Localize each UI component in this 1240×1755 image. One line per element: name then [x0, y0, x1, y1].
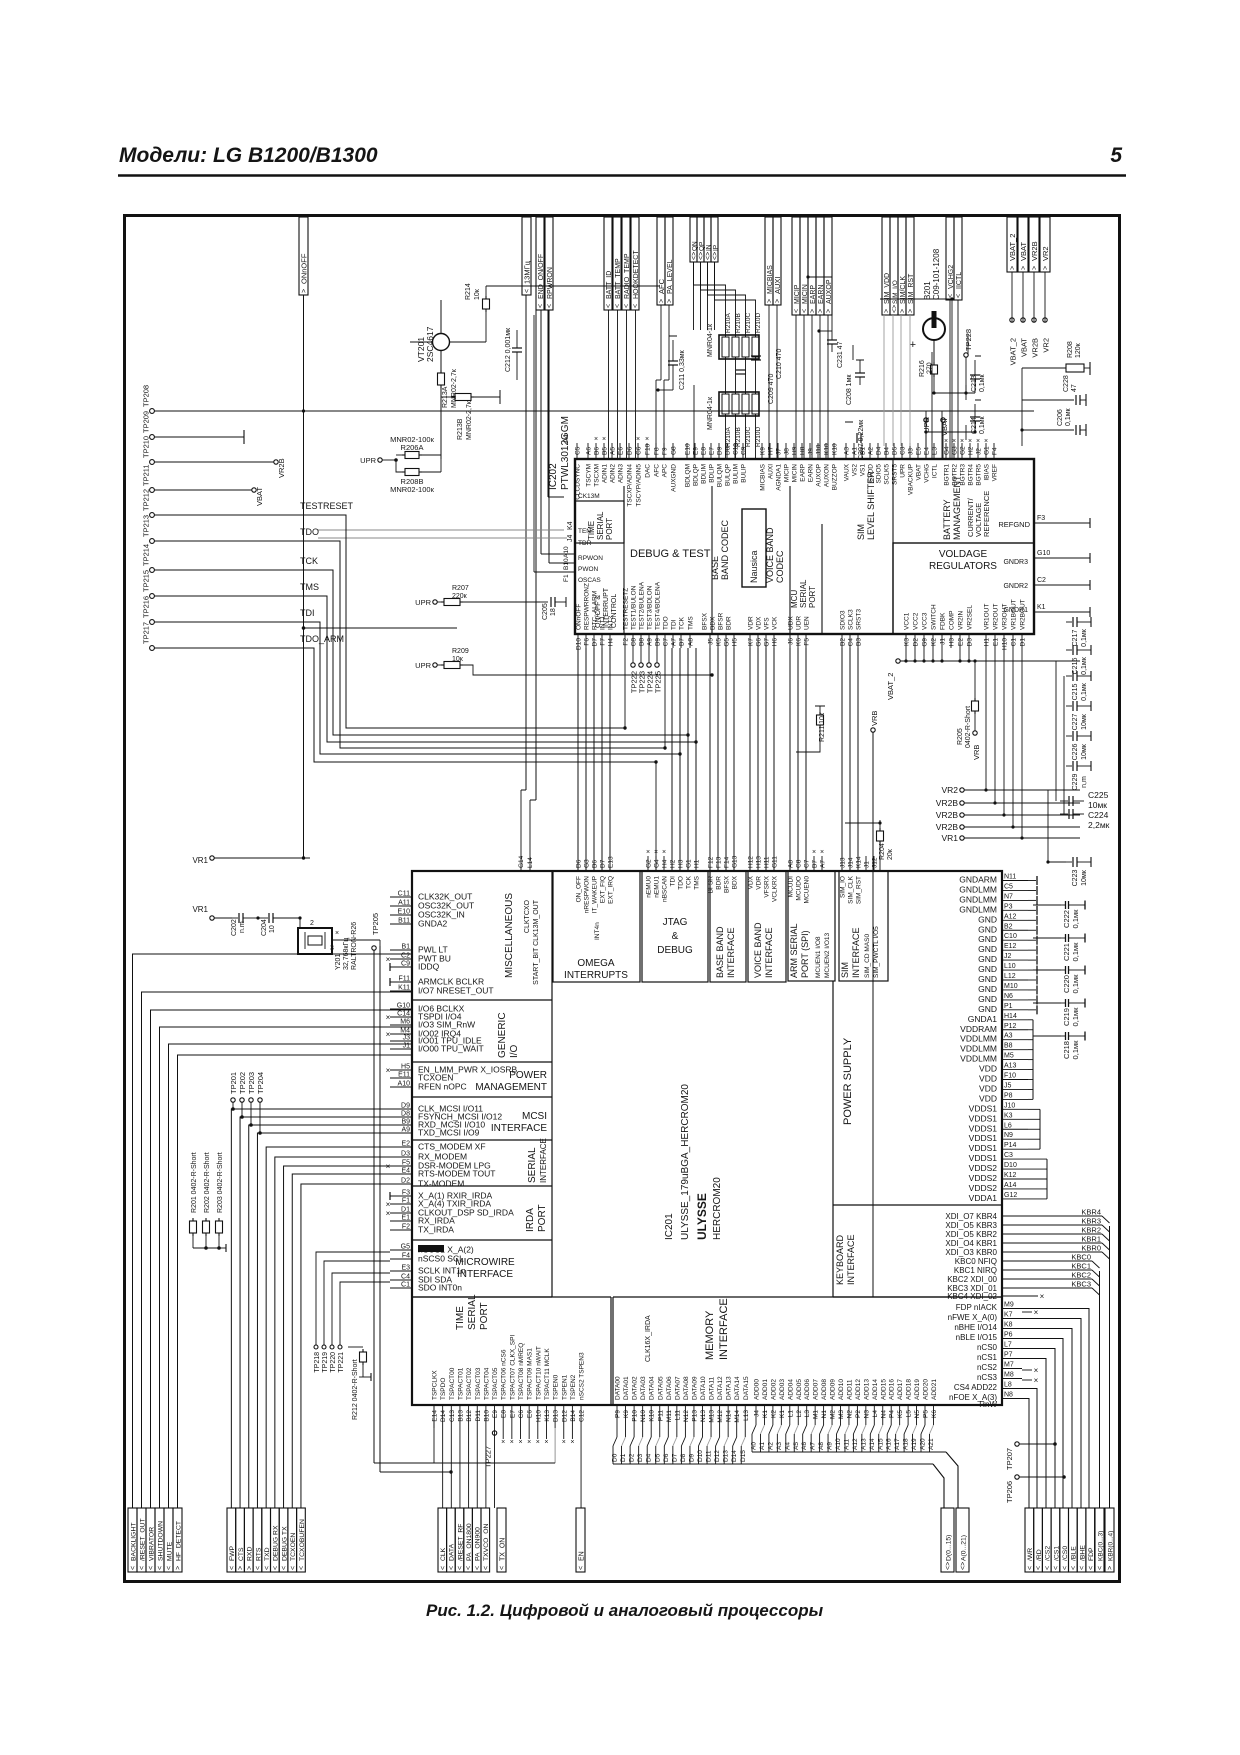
- svg-text:BFSX: BFSX: [702, 612, 709, 630]
- svg-text:START_BIT CLK13M_OUT: START_BIT CLK13M_OUT: [533, 899, 540, 985]
- svg-text:C4: C4: [401, 1274, 410, 1281]
- svg-text:K7: K7: [748, 638, 755, 646]
- svg-text:C211 0,33мк: C211 0,33мк: [679, 349, 686, 390]
- svg-text:J2: J2: [1004, 953, 1012, 960]
- svg-text:IDDQ: IDDQ: [418, 962, 440, 972]
- svg-text:ADD04: ADD04: [787, 1379, 794, 1400]
- svg-text:BGTR2: BGTR2: [952, 464, 959, 486]
- svg-text:10мк: 10мк: [1081, 869, 1088, 886]
- svg-text:ADD11: ADD11: [846, 1379, 853, 1400]
- svg-text:C6: C6: [636, 446, 643, 455]
- svg-text:VRB: VRB: [972, 745, 981, 760]
- svg-text:0,1мк: 0,1мк: [979, 373, 986, 392]
- svg-text:nEMU1: nEMU1: [654, 876, 661, 898]
- svg-text:R210D: R210D: [755, 426, 762, 447]
- svg-text:VR1: VR1: [192, 905, 208, 914]
- svg-text:RADIO_TEMP: RADIO_TEMP: [624, 253, 631, 299]
- svg-text:VBAT: VBAT: [916, 464, 923, 481]
- svg-text:H9: H9: [792, 446, 799, 455]
- svg-text:DATA06: DATA06: [666, 1376, 673, 1400]
- svg-text:×: ×: [645, 436, 649, 443]
- svg-text:C5: C5: [575, 446, 582, 455]
- svg-text:K3: K3: [1004, 1112, 1013, 1119]
- svg-text:R207: R207: [452, 585, 469, 592]
- svg-text:B13: B13: [457, 1410, 464, 1422]
- svg-text:R210C: R210C: [745, 312, 752, 333]
- svg-text:VS1: VS1: [860, 464, 867, 477]
- svg-text:A14: A14: [1004, 1182, 1017, 1189]
- svg-text:TSPACT09 MAS1: TSPACT09 MAS1: [527, 1348, 534, 1400]
- svg-text:VDD: VDD: [979, 1083, 997, 1093]
- svg-text:J1: J1: [940, 638, 947, 645]
- svg-text:D1: D1: [620, 1453, 627, 1462]
- svg-text:GNDR2: GNDR2: [1003, 583, 1028, 590]
- svg-text:×: ×: [335, 930, 339, 937]
- svg-text:DATA00: DATA00: [615, 1376, 622, 1400]
- svg-text:TCXOEN: TCXOEN: [290, 1533, 297, 1561]
- svg-text:MICROWIRE: MICROWIRE: [455, 1257, 515, 1268]
- svg-text:ON_OFF: ON_OFF: [576, 876, 583, 902]
- svg-text:E10: E10: [398, 909, 411, 916]
- svg-text:×: ×: [960, 438, 964, 445]
- svg-text:BATT_TEMP: BATT_TEMP: [615, 258, 622, 299]
- svg-text:H1: H1: [984, 638, 991, 647]
- svg-text:R205: R205: [957, 728, 964, 745]
- svg-text:F9: F9: [662, 447, 669, 455]
- svg-text:F14: F14: [724, 856, 731, 868]
- svg-text:RPWON: RPWON: [578, 555, 603, 562]
- svg-text:<>: <>: [945, 1562, 952, 1570]
- svg-text:BDLQP: BDLQP: [693, 464, 700, 486]
- svg-text:D10: D10: [697, 1450, 704, 1462]
- svg-text:KBC1: KBC1: [1071, 1262, 1091, 1271]
- svg-text:TDI: TDI: [300, 608, 315, 618]
- svg-text:H8: H8: [800, 446, 807, 455]
- svg-text:SHUTDOWN: SHUTDOWN: [157, 1521, 164, 1561]
- svg-text:G5: G5: [724, 638, 731, 647]
- svg-text:<: <: [524, 289, 531, 293]
- svg-text:R212 0402-R-Short: R212 0402-R-Short: [352, 1359, 359, 1420]
- svg-text:L6: L6: [1004, 1122, 1012, 1129]
- svg-text:REGULATORS: REGULATORS: [929, 561, 997, 572]
- svg-text:A20: A20: [920, 1438, 927, 1450]
- svg-text:<: <: [1062, 1566, 1069, 1570]
- svg-text:TDO: TDO: [663, 616, 670, 630]
- svg-text:C1: C1: [401, 1282, 410, 1289]
- svg-text:G10: G10: [397, 1003, 410, 1010]
- svg-text:n,m: n,m: [1081, 776, 1088, 788]
- svg-text:0,1мк: 0,1мк: [1071, 1007, 1080, 1027]
- svg-text:C10: C10: [1004, 933, 1017, 940]
- svg-text:E10: E10: [685, 443, 692, 455]
- svg-text:DATA11: DATA11: [709, 1376, 716, 1400]
- svg-text:P1: P1: [1004, 1003, 1013, 1010]
- svg-text:L13: L13: [743, 1410, 750, 1421]
- svg-text:J5: J5: [1004, 1082, 1012, 1089]
- svg-text:×: ×: [518, 1439, 522, 1446]
- svg-text:<: <: [255, 1566, 262, 1570]
- svg-text:2: 2: [310, 920, 314, 927]
- svg-text:D9: D9: [401, 1103, 410, 1110]
- svg-text:N8: N8: [1004, 1392, 1013, 1399]
- svg-text:DATA14: DATA14: [734, 1376, 741, 1400]
- svg-text:N12: N12: [683, 1410, 690, 1422]
- svg-text:SERIAL: SERIAL: [596, 511, 605, 540]
- svg-text:×: ×: [1034, 1366, 1039, 1375]
- svg-text:A8: A8: [818, 1442, 825, 1450]
- svg-text:VOLDAGE: VOLDAGE: [939, 549, 988, 560]
- svg-text:VDX: VDX: [748, 875, 755, 889]
- svg-text:E1: E1: [993, 638, 1000, 646]
- svg-text:D4: D4: [646, 1453, 653, 1462]
- svg-text:0,1мк: 0,1мк: [1081, 656, 1088, 675]
- svg-text:D14: D14: [731, 1450, 738, 1462]
- svg-text:M1: M1: [813, 1410, 820, 1419]
- svg-text:GNDLMM: GNDLMM: [959, 904, 997, 914]
- svg-text:KBR3: KBR3: [1081, 1217, 1101, 1226]
- svg-text:N2: N2: [846, 1410, 853, 1419]
- svg-text:D2: D2: [401, 1178, 410, 1185]
- svg-text:0,1мк: 0,1мк: [1071, 942, 1080, 962]
- svg-text:nBLE I/O15: nBLE I/O15: [956, 1333, 998, 1342]
- svg-text:SIM: SIM: [856, 524, 866, 540]
- svg-text:SERIAL: SERIAL: [799, 579, 808, 608]
- svg-text:SRST5: SRST5: [892, 464, 899, 485]
- svg-text:K9: K9: [623, 1410, 630, 1418]
- svg-text:CS4 ADD22: CS4 ADD22: [954, 1383, 998, 1392]
- svg-text:BGTR4: BGTR4: [968, 464, 975, 486]
- svg-text:×: ×: [386, 1200, 391, 1209]
- svg-text:A18: A18: [903, 1438, 910, 1450]
- svg-text:P7: P7: [1004, 1352, 1013, 1359]
- svg-text:DATA09: DATA09: [691, 1376, 698, 1400]
- svg-text:VCC2: VCC2: [913, 612, 920, 630]
- svg-text:>: >: [301, 289, 308, 293]
- svg-text:K10: K10: [824, 443, 831, 455]
- svg-text:ADIN3: ADIN3: [618, 464, 625, 484]
- svg-text:VBAT_2: VBAT_2: [1009, 338, 1018, 365]
- svg-text:R210B: R210B: [735, 427, 742, 447]
- svg-text:D10: D10: [576, 638, 583, 650]
- svg-text:TP227: TP227: [484, 1446, 493, 1468]
- svg-text:VIBRATOR: VIBRATOR: [148, 1527, 155, 1561]
- svg-text:VDDA1: VDDA1: [969, 1193, 998, 1203]
- svg-text:B3: B3: [856, 638, 863, 646]
- svg-text:B9: B9: [655, 638, 662, 646]
- svg-text:DATA04: DATA04: [649, 1376, 656, 1400]
- svg-text:×: ×: [510, 1439, 514, 1446]
- svg-text:UEN: UEN: [804, 616, 811, 630]
- svg-text:×: ×: [984, 438, 988, 445]
- svg-text:ONnOFF: ONnOFF: [576, 604, 583, 630]
- svg-text:TP214: TP214: [142, 544, 151, 566]
- svg-text:VCK: VCK: [772, 616, 779, 630]
- svg-text:D14: D14: [440, 1410, 447, 1422]
- svg-text:UPR: UPR: [360, 456, 376, 465]
- svg-text:DATA01: DATA01: [623, 1376, 630, 1400]
- svg-text:K1: K1: [762, 1410, 769, 1418]
- svg-text:D1: D1: [401, 1207, 410, 1214]
- svg-text:VDDRAM: VDDRAM: [960, 1024, 997, 1034]
- svg-text:M2: M2: [830, 1410, 837, 1419]
- svg-text:D3: D3: [967, 638, 974, 647]
- svg-text:TSCXP/ADIN4: TSCXP/ADIN4: [627, 464, 634, 507]
- svg-text:<: <: [1036, 1566, 1043, 1570]
- svg-text:TP201: TP201: [229, 1072, 238, 1094]
- svg-text:I/O7 NRESET_OUT: I/O7 NRESET_OUT: [418, 986, 494, 996]
- svg-text:TSPACT11 MCLK: TSPACT11 MCLK: [544, 1348, 551, 1400]
- svg-text:INTERFACE: INTERFACE: [726, 927, 736, 978]
- svg-text:E3: E3: [401, 1265, 410, 1272]
- svg-text:TP217: TP217: [142, 622, 151, 644]
- svg-text:VDR: VDR: [748, 616, 755, 630]
- svg-text:DEBUG RX: DEBUG RX: [273, 1525, 280, 1561]
- svg-text:KBR2: KBR2: [1081, 1226, 1101, 1235]
- svg-text:A11: A11: [843, 1439, 850, 1450]
- svg-text:<: <: [1097, 1566, 1104, 1570]
- svg-text:D11: D11: [475, 1410, 482, 1422]
- svg-text:P14: P14: [1004, 1142, 1017, 1149]
- svg-text:VCLKRX: VCLKRX: [772, 875, 779, 902]
- svg-text:10мк: 10мк: [1081, 743, 1088, 760]
- svg-text:N11: N11: [1004, 874, 1016, 881]
- svg-text:J9: J9: [808, 448, 815, 455]
- svg-text:×: ×: [386, 1030, 391, 1039]
- svg-text:C212 0,001мк: C212 0,001мк: [505, 327, 512, 372]
- svg-text:KBR1: KBR1: [1081, 1235, 1101, 1244]
- svg-text:E14: E14: [432, 1410, 439, 1422]
- svg-text:VR1BOUT: VR1BOUT: [1011, 599, 1018, 630]
- svg-text:ADD09: ADD09: [830, 1379, 837, 1400]
- svg-text:<: <: [466, 1566, 473, 1570]
- svg-text:VR2B: VR2B: [1030, 241, 1039, 261]
- svg-text:MUTE: MUTE: [166, 1541, 173, 1561]
- svg-text:×: ×: [527, 1439, 531, 1446]
- svg-text:<: <: [264, 1566, 271, 1570]
- svg-text:<: <: [166, 1566, 173, 1570]
- svg-text:GNDA1: GNDA1: [968, 1014, 998, 1024]
- svg-text:L1: L1: [787, 1410, 794, 1418]
- svg-text:N6: N6: [1004, 993, 1013, 1000]
- svg-text:B8: B8: [1004, 1043, 1013, 1050]
- svg-text:<: <: [606, 304, 613, 308]
- svg-text:SIM: SIM: [840, 962, 850, 978]
- svg-text:TSPACT03: TSPACT03: [475, 1367, 482, 1400]
- svg-text:MISCELLANEOUS: MISCELLANEOUS: [504, 893, 515, 978]
- svg-text:×: ×: [976, 438, 980, 445]
- svg-text:×: ×: [501, 1439, 505, 1446]
- svg-text:CTS: CTS: [238, 1547, 245, 1561]
- svg-text:BDLQM: BDLQM: [685, 464, 692, 487]
- svg-text:J6: J6: [788, 638, 795, 645]
- svg-text:<: <: [538, 304, 545, 308]
- svg-text:F5: F5: [402, 1160, 410, 1167]
- svg-text:A10: A10: [563, 546, 570, 558]
- svg-text:×: ×: [386, 1066, 391, 1075]
- svg-text:TP207: TP207: [1005, 1448, 1014, 1470]
- svg-text:0,1мк: 0,1мк: [1065, 407, 1072, 426]
- svg-text:C228: C228: [1063, 375, 1070, 392]
- svg-text:G12: G12: [1004, 1192, 1017, 1199]
- svg-text:A14: A14: [869, 1438, 876, 1450]
- svg-text:GND: GND: [978, 1004, 997, 1014]
- svg-text:<>: <>: [712, 252, 719, 260]
- svg-text:VR2SEL: VR2SEL: [967, 605, 974, 630]
- svg-text:10к: 10к: [474, 288, 481, 300]
- svg-text:VR2B: VR2B: [1031, 338, 1040, 358]
- svg-text:<: <: [474, 1566, 481, 1570]
- svg-text:M13: M13: [709, 1410, 716, 1423]
- svg-text:F13: F13: [716, 856, 723, 868]
- svg-text:F10: F10: [1004, 1073, 1016, 1080]
- svg-text:RTC_ALARM: RTC_ALARM: [592, 591, 599, 630]
- svg-text:J5: J5: [708, 638, 715, 645]
- svg-text:INTERRUPTS: INTERRUPTS: [564, 970, 628, 981]
- svg-text:TCXOBUFEN: TCXOBUFEN: [299, 1519, 306, 1561]
- svg-text:×: ×: [386, 955, 391, 964]
- svg-text:C3: C3: [900, 446, 907, 455]
- svg-text:MICIN: MICIN: [792, 464, 799, 483]
- svg-text:TMS: TMS: [694, 875, 701, 889]
- svg-text:D9: D9: [688, 1453, 695, 1462]
- svg-text:20к: 20к: [887, 848, 894, 860]
- svg-text:TP208: TP208: [142, 385, 151, 407]
- svg-text:B2: B2: [840, 638, 847, 646]
- svg-text:nEMU0: nEMU0: [646, 876, 653, 898]
- svg-text:MCUEN2 I/O13: MCUEN2 I/O13: [824, 932, 831, 978]
- svg-text:BFSR: BFSR: [708, 876, 715, 894]
- svg-text:L8: L8: [1004, 1382, 1012, 1389]
- svg-text:K7: K7: [1004, 1312, 1013, 1319]
- svg-text:XDI_O5 KBR2: XDI_O5 KBR2: [945, 1230, 997, 1239]
- svg-text:N10: N10: [640, 1410, 647, 1422]
- svg-text:ADD03: ADD03: [779, 1379, 786, 1400]
- svg-text:VREF: VREF: [992, 464, 999, 481]
- svg-text:<>: <>: [960, 1562, 967, 1570]
- svg-text:E4: E4: [401, 1168, 410, 1175]
- svg-text:C221: C221: [1062, 943, 1071, 961]
- svg-text:UPR: UPR: [415, 661, 431, 670]
- svg-text:A1: A1: [759, 1442, 766, 1450]
- svg-text:D7: D7: [592, 638, 599, 647]
- svg-text:J2: J2: [976, 448, 983, 455]
- svg-text:J10: J10: [816, 444, 823, 455]
- svg-text:nCS0: nCS0: [977, 1343, 998, 1352]
- svg-text:+: +: [910, 339, 916, 351]
- svg-text:L10: L10: [1004, 963, 1016, 970]
- svg-text:2SC4617: 2SC4617: [425, 326, 435, 362]
- svg-text:ADD07: ADD07: [813, 1379, 820, 1400]
- svg-text:H4: H4: [608, 638, 615, 647]
- svg-text:TDO_ARM: TDO_ARM: [300, 634, 344, 644]
- svg-text:M10: M10: [1004, 983, 1018, 990]
- svg-text:VCC1: VCC1: [904, 612, 911, 630]
- svg-text:POWER: POWER: [509, 1070, 547, 1081]
- svg-text:TMS: TMS: [688, 616, 695, 630]
- svg-text:SCLK5: SCLK5: [884, 464, 891, 485]
- svg-text:ADD05: ADD05: [796, 1379, 803, 1400]
- svg-text:REFERENCE: REFERENCE: [982, 491, 991, 537]
- svg-text:D3: D3: [401, 1151, 410, 1158]
- svg-text:/CS1: /CS1: [1053, 1546, 1060, 1561]
- svg-text:TSPACT10 nWAIT: TSPACT10 nWAIT: [535, 1346, 542, 1400]
- svg-text:A(0...21): A(0...21): [960, 1535, 967, 1561]
- svg-text:M12: M12: [717, 1410, 724, 1423]
- svg-text:BATTERY: BATTERY: [942, 499, 952, 540]
- svg-text:SRST3: SRST3: [856, 609, 863, 630]
- svg-text:RALTRON-R26: RALTRON-R26: [351, 922, 358, 970]
- svg-text:F11: F11: [398, 976, 410, 983]
- svg-text:5: 5: [1110, 144, 1122, 167]
- svg-text:DEBUG TX: DEBUG TX: [281, 1526, 288, 1561]
- svg-text:ADD18: ADD18: [906, 1379, 913, 1400]
- svg-text:D11: D11: [706, 1450, 713, 1462]
- svg-text:K6: K6: [796, 638, 803, 646]
- svg-text:AUXI: AUXI: [768, 464, 775, 479]
- svg-text:BDR: BDR: [716, 876, 723, 890]
- svg-text:B14: B14: [570, 1410, 577, 1422]
- svg-text:ADD16: ADD16: [889, 1379, 896, 1400]
- svg-text:E3: E3: [932, 447, 939, 455]
- svg-text:13МГц: 13МГц: [522, 260, 531, 284]
- svg-text:G2: G2: [646, 859, 653, 868]
- svg-text:GND: GND: [978, 914, 997, 924]
- svg-text:K5: K5: [716, 638, 723, 646]
- svg-text:CTS_MODEM XF: CTS_MODEM XF: [418, 1142, 486, 1152]
- svg-text:>: >: [175, 1566, 182, 1570]
- svg-text:ADD10: ADD10: [838, 1379, 845, 1400]
- svg-text:MCUEN0: MCUEN0: [804, 876, 811, 904]
- svg-text:J3: J3: [908, 448, 915, 455]
- svg-text:H14: H14: [1004, 1013, 1017, 1020]
- svg-text:A4: A4: [784, 1442, 791, 1450]
- svg-text:E7: E7: [509, 1410, 516, 1418]
- svg-text:L4: L4: [872, 1410, 879, 1418]
- svg-text:×: ×: [1040, 1292, 1045, 1301]
- svg-text:A10: A10: [835, 1438, 842, 1450]
- svg-text:×: ×: [536, 1439, 540, 1446]
- svg-text:TIME: TIME: [455, 1306, 466, 1330]
- svg-text:BULQP: BULQP: [725, 464, 732, 486]
- svg-text:TCK: TCK: [300, 556, 318, 566]
- svg-text:F5: F5: [804, 638, 811, 646]
- svg-text:ADD19: ADD19: [914, 1379, 921, 1400]
- svg-text:D7: D7: [600, 859, 607, 868]
- svg-text:N4: N4: [880, 1410, 887, 1419]
- svg-text:C204: C204: [261, 919, 268, 936]
- svg-text:D6: D6: [663, 1453, 670, 1462]
- svg-text:N7: N7: [1004, 893, 1013, 900]
- svg-text:C213: C213: [971, 375, 978, 392]
- svg-text:BULQM: BULQM: [717, 464, 724, 487]
- svg-text:P3: P3: [1004, 903, 1013, 910]
- svg-text:F7: F7: [600, 638, 607, 646]
- svg-text:E8: E8: [501, 1410, 508, 1418]
- svg-text:A3: A3: [776, 1442, 783, 1450]
- svg-text:G7: G7: [764, 638, 771, 647]
- svg-text:BGTR3: BGTR3: [960, 464, 967, 486]
- svg-text:C09-101-1208: C09-101-1208: [932, 248, 941, 300]
- svg-text:0402-R-Short: 0402-R-Short: [965, 706, 972, 748]
- svg-text:nSCS2 TSPEN3: nSCS2 TSPEN3: [579, 1352, 586, 1400]
- svg-text:INTERFACE: INTERFACE: [491, 1123, 547, 1134]
- svg-text:DATA10: DATA10: [700, 1376, 707, 1400]
- svg-text:SDIO5: SDIO5: [876, 464, 883, 484]
- svg-text:TP203: TP203: [247, 1072, 256, 1094]
- svg-text:<: <: [547, 304, 554, 308]
- svg-text:BATT_ID: BATT_ID: [606, 271, 613, 299]
- svg-text:<: <: [290, 1566, 297, 1570]
